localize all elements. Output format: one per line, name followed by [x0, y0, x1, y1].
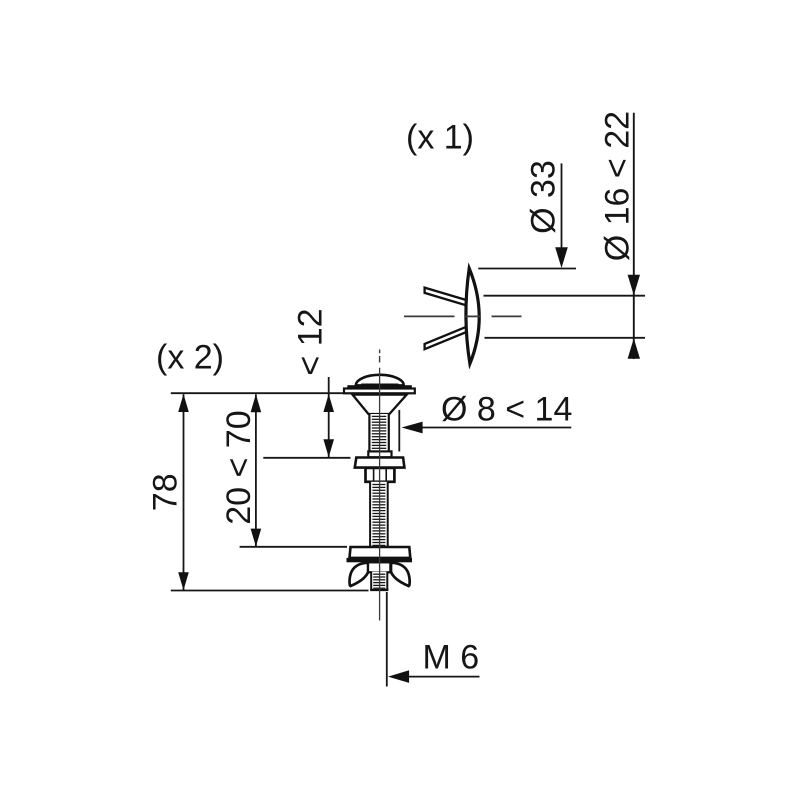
dimension line Ø16<22 vertical: [633, 113, 635, 359]
reference line top of plug flange: [478, 268, 576, 270]
svg-text:(x 2): (x 2): [156, 339, 224, 377]
arrowhead Ø33 down: [555, 247, 568, 268]
arrowhead <12 up: [323, 394, 334, 412]
arrowhead 78 up: [178, 394, 189, 412]
wing nut barrel: [368, 562, 390, 572]
arrowhead Ø8 left: [402, 422, 423, 434]
plug centerline dash 3: [492, 315, 522, 317]
dimension <12 vertical line: [328, 377, 330, 457]
arrowhead M6 left: [388, 670, 409, 683]
svg-text:20 < 70: 20 < 70: [220, 410, 258, 524]
M6 leader line: [406, 676, 480, 678]
threaded tip: [370, 572, 388, 591]
svg-text:Ø 16 < 22: Ø 16 < 22: [598, 111, 636, 261]
svg-text:78: 78: [146, 473, 184, 511]
arrowhead Ø16<22 up: [628, 338, 640, 358]
middle washer: [355, 458, 405, 468]
bolt head plate: [344, 389, 415, 394]
upper threaded rod: [369, 414, 388, 451]
plug centerline dash 1: [404, 315, 455, 317]
bolt dome head: [356, 375, 404, 386]
bottom washer: [350, 547, 411, 558]
M6 extension line: [386, 592, 388, 687]
bolt centerline: [379, 368, 381, 621]
Ø8 extension line (right of upper rod): [398, 410, 400, 452]
arrowhead 78 down: [178, 572, 189, 590]
plug upper prong: [425, 288, 468, 306]
dimension 20<70 vertical line: [255, 394, 257, 546]
hex nut: [366, 468, 395, 482]
reference line bottom of <12 range: [263, 457, 350, 459]
bolt head plate top strip: [347, 385, 412, 388]
reference line bottom of 20<70 range: [240, 546, 347, 548]
bolt centerline top dash 1: [379, 350, 381, 354]
dimension leader line Ø33 vertical: [561, 163, 563, 250]
svg-text:Ø 33: Ø 33: [525, 160, 563, 234]
arrowhead <12 down: [323, 439, 334, 457]
arrowhead 20<70 up: [251, 394, 262, 412]
lower threaded rod: [370, 482, 388, 547]
wing nut right wing: [391, 563, 410, 586]
dimension 78 vertical line: [183, 394, 185, 590]
plug mouth top line: [484, 295, 646, 297]
plug mouth bottom line: [485, 337, 646, 339]
collar above middle washer: [368, 451, 391, 457]
wing nut left wing: [350, 563, 369, 586]
bolt dome base chord: [361, 384, 398, 386]
bottom washer flange band: [347, 558, 413, 562]
plug flange lens: [466, 268, 479, 363]
reference line under bolt head: [171, 392, 344, 394]
Ø8 leader line: [420, 427, 571, 429]
svg-text:Ø 8 < 14: Ø 8 < 14: [441, 391, 572, 429]
plug centerline dash 2: [465, 315, 481, 317]
svg-text:M 6: M 6: [423, 639, 480, 677]
svg-text:(x 1): (x 1): [406, 119, 474, 157]
bolt head cone: [353, 395, 407, 414]
reference line bolt tip (78): [171, 590, 369, 592]
plug lower prong: [425, 326, 468, 349]
arrowhead 20<70 down: [251, 529, 262, 547]
arrowhead Ø16<22 down: [628, 275, 640, 295]
svg-text:< 12: < 12: [292, 308, 330, 375]
bolt centerline top dash 2: [379, 356, 381, 363]
